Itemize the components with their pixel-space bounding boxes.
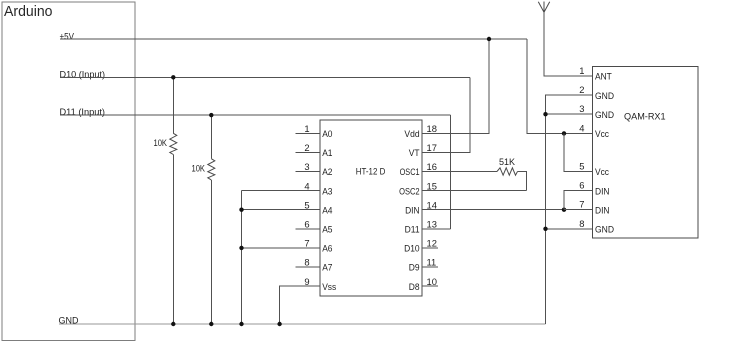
wire antenna to ANT pin: [544, 12, 593, 76]
wire +5V horizontal: [60, 38, 527, 40]
wire A-pin ground chain vertical: [241, 191, 243, 324]
wire Vcc chain pin4 to pin5: [564, 133, 593, 171]
pin 6 A5 stub: [295, 228, 320, 230]
junction dot Vcc chain: [562, 131, 566, 135]
svg-text:10K: 10K: [154, 137, 168, 148]
resistor R1 10K top lead: [172, 77, 174, 133]
wire GND pin8: [546, 228, 593, 230]
svg-text:Vss: Vss: [322, 281, 336, 292]
pin 15 OSC2 wire: [422, 190, 526, 192]
svg-text:12: 12: [427, 238, 437, 249]
svg-text:A7: A7: [322, 262, 332, 273]
pin 5 A4 wire to ground chain: [242, 209, 320, 211]
svg-text:16: 16: [427, 161, 437, 172]
junction dot GND pin3: [543, 112, 547, 116]
antenna left arm: [538, 2, 544, 12]
svg-text:13: 13: [427, 219, 437, 230]
pin 9 Vss wire: [280, 286, 320, 324]
svg-text:9: 9: [304, 276, 309, 287]
wire receiver GND chain: [546, 95, 593, 324]
svg-text:+5V: +5V: [60, 30, 75, 41]
pin 3 A2 stub: [295, 171, 320, 173]
svg-text:11: 11: [427, 257, 437, 268]
wire D11 horizontal: [60, 114, 450, 116]
svg-text:GND: GND: [595, 109, 614, 120]
pin 12 stub: [422, 247, 438, 249]
pin 18 Vdd wire to +5V: [422, 39, 489, 133]
svg-text:3: 3: [579, 103, 584, 114]
pin 13 D11 wire: [422, 228, 450, 230]
resistor R3 51K zigzag: [497, 168, 518, 175]
svg-text:5: 5: [304, 199, 309, 210]
pin 2 A1 stub: [295, 151, 320, 153]
svg-text:Vcc: Vcc: [595, 166, 609, 177]
junction dot R1/GND: [171, 322, 175, 326]
junction dot D10/R1: [171, 75, 175, 79]
wire DIN chain pin7 to pin6: [564, 191, 593, 210]
junction dot DIN chain: [562, 208, 566, 212]
wire D11 vertical drop: [449, 115, 451, 229]
svg-text:D9: D9: [409, 262, 420, 273]
junction dot chain/GND: [239, 322, 243, 326]
svg-text:A3: A3: [322, 185, 332, 196]
svg-text:14: 14: [427, 199, 437, 210]
svg-text:ANT: ANT: [595, 71, 612, 82]
pin 11 stub: [422, 266, 438, 268]
pin 17 VT wire to D10: [422, 77, 470, 152]
pin 16 OSC1 wire to 51K: [422, 171, 497, 173]
svg-text:8: 8: [304, 257, 309, 268]
wire GND pin3: [546, 113, 593, 115]
svg-text:DIN: DIN: [595, 185, 610, 196]
svg-text:GND: GND: [595, 90, 614, 101]
pin 10 stub: [422, 285, 438, 287]
svg-text:17: 17: [427, 142, 437, 153]
resistor R2 10K zigzag: [208, 159, 215, 180]
svg-text:5: 5: [579, 161, 584, 172]
wire GND rail: [59, 323, 546, 325]
svg-text:OSC2: OSC2: [399, 185, 420, 196]
antenna mast: [543, 2, 545, 13]
pin 14 DIN wire to receiver: [422, 209, 564, 211]
svg-text:15: 15: [427, 180, 437, 191]
svg-text:D8: D8: [409, 281, 420, 292]
svg-text:Vcc: Vcc: [595, 128, 609, 139]
svg-text:10: 10: [427, 276, 437, 287]
svg-text:4: 4: [304, 180, 309, 191]
svg-text:QAM-RX1: QAM-RX1: [624, 111, 666, 122]
svg-text:8: 8: [579, 218, 584, 229]
svg-text:D10: D10: [404, 243, 420, 254]
svg-text:10K: 10K: [192, 163, 206, 174]
resistor R1 10K zigzag: [170, 133, 177, 154]
svg-text:OSC1: OSC1: [400, 166, 420, 177]
svg-text:A0: A0: [322, 128, 332, 139]
pin 7 A6 wire to ground chain: [242, 247, 320, 249]
svg-text:7: 7: [304, 238, 309, 249]
svg-text:6: 6: [579, 180, 584, 191]
junction dot A4 chain: [239, 208, 243, 212]
svg-text:A5: A5: [322, 224, 332, 235]
svg-text:51K: 51K: [499, 156, 516, 167]
svg-text:A6: A6: [322, 243, 332, 254]
antenna right arm: [544, 2, 550, 12]
svg-text:2: 2: [304, 142, 309, 153]
wire +5V drop to receiver Vcc: [527, 39, 592, 133]
pin 4 A3 wire to ground chain: [242, 190, 320, 192]
svg-text:GND: GND: [595, 224, 614, 235]
svg-text:Vdd: Vdd: [404, 128, 419, 139]
svg-text:18: 18: [427, 123, 437, 134]
svg-text:A4: A4: [322, 204, 332, 215]
junction dot Vss/GND: [277, 322, 281, 326]
resistor R1 10K bottom lead: [172, 155, 174, 325]
svg-text:A1: A1: [322, 147, 332, 158]
resistor R2 10K top lead: [210, 115, 212, 159]
svg-text:D11: D11: [405, 224, 420, 235]
svg-text:2: 2: [579, 84, 584, 95]
wire 51K to OSC2 loop: [518, 172, 527, 191]
wire D10 horizontal: [60, 76, 470, 78]
pin 8 A7 stub: [295, 266, 320, 268]
svg-text:1: 1: [304, 123, 309, 134]
svg-text:6: 6: [304, 219, 309, 230]
svg-text:VT: VT: [409, 147, 420, 158]
svg-text:1: 1: [579, 65, 584, 76]
svg-text:4: 4: [579, 122, 584, 133]
junction dot A6 chain: [239, 246, 243, 250]
svg-text:A2: A2: [322, 166, 332, 177]
wire DIN pin7 stub: [564, 209, 593, 211]
junction dot GND pin8: [543, 227, 547, 231]
op IC U1 HT-12D body: [320, 120, 422, 296]
junction dot Vdd/+5V: [487, 37, 491, 41]
Arduino box: [2, 2, 135, 340]
module U2 QAM-RX1 body: [593, 67, 699, 239]
junction dot R2/GND: [209, 322, 213, 326]
svg-text:DIN: DIN: [405, 204, 420, 215]
svg-text:7: 7: [579, 199, 584, 210]
svg-text:HT-12 D: HT-12 D: [356, 166, 386, 177]
svg-text:3: 3: [304, 161, 309, 172]
svg-text:DIN: DIN: [595, 204, 610, 215]
resistor R2 10K bottom lead: [210, 180, 212, 324]
pin 1 A0 stub: [295, 132, 320, 134]
junction dot D11/R2: [209, 113, 213, 117]
svg-text:Arduino: Arduino: [4, 4, 53, 20]
